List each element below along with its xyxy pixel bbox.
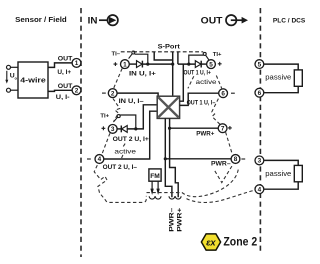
S-Port stub right <box>177 52 179 64</box>
disconnect lever terminal 3 <box>113 115 120 122</box>
bypass wire lever 5 <box>189 55 204 64</box>
wire device3 to device4 (dashed) <box>102 133 110 154</box>
svg-text:U, I+: U, I+ <box>57 69 71 76</box>
wire device5 to device6 (dashed) <box>216 76 221 89</box>
bypass wire lever 3 <box>120 115 136 129</box>
S-Port connector bracket <box>154 52 173 60</box>
device terminal 6 <box>219 89 228 98</box>
leader active-right left <box>188 76 194 88</box>
svg-text:TI+: TI+ <box>213 52 222 58</box>
OUT symbol (circle with arrow out) <box>226 15 248 25</box>
svg-text:IN U, I–: IN U, I– <box>119 98 144 105</box>
svg-text:OUT: OUT <box>58 83 73 90</box>
svg-text:passive: passive <box>265 169 291 178</box>
svg-text:OUT: OUT <box>201 15 223 26</box>
device terminal 3 <box>108 124 117 133</box>
svg-text:passive: passive <box>265 73 291 82</box>
svg-text:PWR+: PWR+ <box>176 207 183 231</box>
PLC terminal 4 <box>255 185 264 194</box>
device terminal 5 <box>207 60 216 69</box>
wire PLC load lower <box>264 160 298 189</box>
plus sign terminal 5 <box>218 62 222 66</box>
wire terminal 1 to diode D1 <box>129 63 136 65</box>
svg-text:3: 3 <box>258 158 262 165</box>
FM approval box <box>149 169 161 181</box>
IN symbol (arrow into circle) <box>99 15 118 25</box>
zone boundary dashed line (PLC/DCS side) <box>259 8 261 251</box>
wire diode D5 to terminal 5 <box>201 63 207 65</box>
wire S-Port bracket to transformer top <box>172 60 174 96</box>
connector socket 3 <box>169 196 175 199</box>
wire device4 down to connector (dashed zigzag) <box>94 165 146 202</box>
svg-text:6: 6 <box>221 90 225 97</box>
connector socket 2 <box>155 196 161 199</box>
connector socket 4 <box>175 196 181 199</box>
diode D1 <box>137 61 143 68</box>
svg-text:FM: FM <box>150 173 160 180</box>
wire under device8 zigzag (dashed) <box>214 166 232 183</box>
svg-text:5: 5 <box>209 61 213 68</box>
wire terminal 2 to transformer top corner <box>117 93 158 96</box>
wire PWR+ to terminal 7 <box>170 127 219 129</box>
wire device7 to device8 (dashed) <box>226 132 233 155</box>
svg-text:8: 8 <box>234 156 238 163</box>
zone boundary dashed line (Sensor/Field side) <box>80 8 82 257</box>
wire transformer bottom to power pin 1 <box>165 118 172 197</box>
wire device1 to device2 (dashed) <box>114 69 122 89</box>
wire 4-wire box to field terminal 1 <box>48 63 72 68</box>
wire connector to PLC terminal 4 (dashed curve) <box>187 190 255 202</box>
PLC terminal 5 <box>255 60 264 69</box>
svg-text:active: active <box>196 79 217 86</box>
svg-text:active: active <box>114 149 136 156</box>
minus sign terminal 2 <box>102 92 106 94</box>
junction bypass 5 <box>187 63 190 66</box>
svg-text:OUT 1 U, I+: OUT 1 U, I+ <box>184 70 211 77</box>
junction PWR- <box>164 157 167 160</box>
junction PWR+ <box>168 127 171 130</box>
isolation transformer (crossed box) <box>157 96 179 118</box>
wire device6 to device7 zigzag (dashed) <box>212 99 220 125</box>
svg-text:3: 3 <box>111 126 115 133</box>
diode D3 (cathode left) <box>121 126 127 133</box>
svg-text:PWR+: PWR+ <box>196 131 214 138</box>
wire diode D3 to transformer left <box>127 105 157 129</box>
svg-text:PLC / DCS: PLC / DCS <box>273 17 306 24</box>
svg-text:OUT: OUT <box>58 56 73 63</box>
4-wire transmitter box <box>18 62 48 98</box>
wire PLC load upper <box>264 64 298 93</box>
diode D5 <box>195 61 201 68</box>
svg-text:2: 2 <box>75 88 79 95</box>
label OUT U,I- (field) <box>56 83 73 101</box>
wire device2 to device3 zigzag (dashed) <box>113 98 120 121</box>
device terminal 2 <box>108 89 117 98</box>
svg-text:Sensor / Field: Sensor / Field <box>15 17 67 24</box>
svg-text:6: 6 <box>258 90 262 97</box>
svg-text:7: 7 <box>221 125 225 132</box>
svg-text:IN U, I+: IN U, I+ <box>129 70 156 77</box>
junction S-Port/IN+ <box>171 63 174 66</box>
minus sign terminal 8 <box>241 158 245 160</box>
device terminal 1 <box>121 60 130 69</box>
connector socket 1 <box>149 196 155 199</box>
PLC terminal 3 <box>255 156 264 165</box>
disconnect lever terminal 5 <box>203 52 209 60</box>
svg-text:Zone 2: Zone 2 <box>223 235 257 249</box>
leader active-left down <box>121 155 123 159</box>
source terminal stub top <box>7 65 19 69</box>
wire transformer right to OUT1+ <box>180 64 184 101</box>
label OUT U,I+ (field) <box>57 56 72 76</box>
wire terminal 3 to diode D3 <box>117 128 121 130</box>
svg-text:TI–: TI– <box>112 52 121 58</box>
wire 4-wire box to field terminal 2 <box>48 90 72 91</box>
svg-text:OUT 2 U, I+: OUT 2 U, I+ <box>113 136 149 143</box>
Ex hexagon symbol <box>201 234 220 250</box>
svg-text:4: 4 <box>98 156 102 163</box>
field terminal 1 <box>72 59 81 68</box>
junction bypass 1 <box>146 63 149 66</box>
svg-text:5: 5 <box>258 61 262 68</box>
leader active-left up <box>123 143 125 146</box>
source terminal stub bottom <box>7 88 19 92</box>
wire transformer right to terminal 6 <box>180 93 219 105</box>
S-Port dashed line <box>121 51 203 53</box>
svg-text:2: 2 <box>111 90 115 97</box>
junction bypass 3 <box>134 127 137 130</box>
plus sign terminal 3 <box>102 126 106 130</box>
resistor R2 (passive load lower) <box>294 165 302 181</box>
svg-text:4: 4 <box>258 186 262 193</box>
wire transformer bottom to power pin 2 <box>170 118 179 197</box>
svg-text:U, I-: U, I- <box>56 94 70 101</box>
PLC terminal 6 <box>255 88 264 97</box>
svg-text:1: 1 <box>75 60 79 67</box>
FM pointer arrow left <box>150 181 153 195</box>
dashed alternative wiring web <box>94 69 255 203</box>
wire OUT1+ to diode D5 <box>178 63 195 65</box>
svg-text:S-Port: S-Port <box>158 44 181 51</box>
wire diode D1 to transformer <box>142 63 172 65</box>
svg-text:OUT 2 U, I–: OUT 2 U, I– <box>103 164 138 171</box>
resistor R1 (passive load upper) <box>294 70 302 86</box>
svg-text:PWR–: PWR– <box>168 207 175 232</box>
svg-text:TI+: TI+ <box>100 113 109 119</box>
disconnect lever terminal 1 <box>129 51 135 59</box>
svg-text:PWR–: PWR– <box>211 160 231 167</box>
device terminal 4 <box>95 155 104 164</box>
svg-text:IN: IN <box>88 15 98 26</box>
plus sign terminal 7 <box>228 126 232 130</box>
FM pointer arrow right <box>156 181 159 195</box>
svg-text:OUT 1 U, I–: OUT 1 U, I– <box>187 100 216 107</box>
svg-text:4-wire: 4-wire <box>20 78 46 85</box>
minus sign terminal 4 <box>87 158 91 160</box>
minus sign terminal 6 <box>231 92 235 94</box>
wire connector to terminal 8 (dashed curve) <box>147 168 239 196</box>
plus sign terminal 1 <box>114 62 118 66</box>
device terminal 8 <box>231 155 240 164</box>
wire PWR- to terminal 8 <box>165 158 231 160</box>
voltage source arrow Uo <box>5 71 17 84</box>
svg-text:1: 1 <box>123 61 127 68</box>
bypass wire lever 1 <box>135 54 148 64</box>
field terminal 2 <box>72 86 81 95</box>
device terminal 7 <box>218 124 227 133</box>
wire terminal 4 to transformer left <box>104 111 158 159</box>
svg-text:εx: εx <box>206 237 216 248</box>
